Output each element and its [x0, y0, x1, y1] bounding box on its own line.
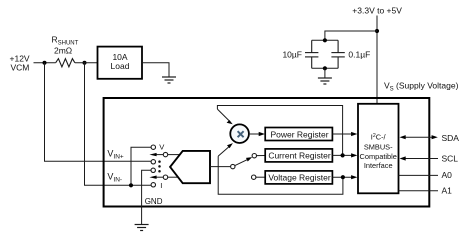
- wire multiplier to power register with arrow: [249, 133, 259, 135]
- node V branch junction dot on VIN-: [129, 183, 133, 187]
- svg-text:Load: Load: [111, 61, 130, 71]
- interface box I2C/SMBUS: [358, 104, 399, 194]
- wire A0: [399, 174, 439, 176]
- wire cap to ground: [324, 68, 326, 78]
- wire amp input top: [168, 154, 181, 156]
- node cap bottom junction dot: [323, 66, 327, 70]
- wire A1: [399, 190, 439, 192]
- node junction dot right of shunt: [83, 61, 87, 65]
- register box Power Register: [265, 128, 332, 141]
- svg-text:VCM: VCM: [11, 63, 30, 73]
- svg-text:Compatible: Compatible: [360, 152, 397, 161]
- mux throw circle GND: [151, 168, 155, 172]
- wire SCL with arrow into interface: [404, 158, 438, 160]
- svg-text:Voltage Register: Voltage Register: [268, 173, 331, 183]
- wire top rail from current register feedback to multiplier: [217, 106, 342, 156]
- wire +12V to shunt: [34, 62, 56, 64]
- svg-text:+3.3V to +5V: +3.3V to +5V: [352, 5, 402, 15]
- device outer box: [104, 98, 430, 207]
- node cap top junction dot: [323, 38, 327, 42]
- svg-text:2mΩ: 2mΩ: [54, 46, 72, 56]
- svg-text:0.1µF: 0.1µF: [348, 49, 370, 59]
- wire current register to interface with arrow: [332, 154, 352, 156]
- wire shunt to load: [75, 62, 98, 64]
- wire power register to interface with arrow: [332, 133, 352, 135]
- wire VIN- from right shunt node down and right: [85, 63, 152, 186]
- node +12V VCM: [10, 54, 30, 73]
- wire VIN+ from left shunt node down and right: [45, 63, 152, 162]
- wire load to ground: [142, 63, 169, 77]
- ground G2 (capacitors): [318, 78, 332, 84]
- wire amp output: [210, 166, 231, 168]
- mux throw circle VIN+: [151, 160, 155, 164]
- switch arm to current register: [235, 159, 248, 165]
- mux pole circle top with arm arrow: [163, 152, 167, 156]
- resistor RSHUNT zigzag: [56, 59, 75, 67]
- wire capacitor top rail: [312, 39, 338, 41]
- multiplier circle: [230, 124, 249, 143]
- wire capacitor bottom rail: [312, 67, 338, 69]
- capacitor C2 0.1uF: [331, 40, 344, 68]
- wire throw to voltage register: [256, 176, 265, 178]
- multiplier x glyph: [238, 131, 244, 137]
- ground G3 (device GND): [135, 225, 149, 231]
- svg-text:I: I: [160, 181, 162, 190]
- wire diagonal into multiplier bottom-left with arrow: [218, 146, 229, 156]
- mux throw circle V: [151, 145, 155, 149]
- wire V branch to VIN-: [131, 147, 151, 185]
- svg-text:SCL: SCL: [442, 154, 459, 164]
- load box 10A Load: [98, 47, 143, 79]
- wire SDA bidirectional: [404, 136, 433, 138]
- wire supply branch to capacitors: [325, 31, 377, 40]
- wire VS vertical: [376, 16, 378, 104]
- register box Voltage Register: [265, 171, 332, 184]
- register box Current Register: [265, 149, 332, 162]
- mux dots vertical ellipsis: [158, 160, 161, 172]
- svg-text:Interface: Interface: [364, 161, 393, 170]
- switch throw circle voltage: [252, 175, 256, 179]
- mux throw circle I: [151, 183, 155, 187]
- svg-text:A0: A0: [442, 170, 453, 180]
- wire bottom rail from voltage register feedback to multiplier: [218, 156, 343, 194]
- wire GND branch: [142, 170, 151, 224]
- node supply junction dot: [375, 29, 379, 33]
- node current feedback junction dot: [341, 153, 345, 157]
- svg-text:Current Register: Current Register: [268, 151, 331, 161]
- op-amp ADC pentagon: [170, 151, 210, 183]
- wire diagonal into multiplier top-left with arrow: [217, 109, 229, 121]
- mux pole circle bottom with arm arrow: [163, 175, 167, 179]
- svg-text:A1: A1: [442, 186, 453, 196]
- switch pole circle output: [231, 164, 235, 168]
- node voltage feedback junction dot: [341, 175, 345, 179]
- svg-text:SDA: SDA: [442, 133, 460, 143]
- switch throw circle current: [252, 154, 256, 158]
- svg-text:10µF: 10µF: [282, 49, 302, 59]
- wire throw to current register: [257, 155, 266, 157]
- svg-text:GND: GND: [145, 197, 163, 206]
- wire voltage register to interface with arrow: [332, 176, 352, 178]
- capacitor C1 10uF: [305, 40, 318, 68]
- wire amp input bottom: [168, 176, 179, 178]
- ground G1 (load): [162, 77, 176, 83]
- node junction dot left of shunt: [43, 61, 47, 65]
- svg-text:Power Register: Power Register: [270, 130, 328, 140]
- svg-text:SMBUS-: SMBUS-: [364, 142, 393, 151]
